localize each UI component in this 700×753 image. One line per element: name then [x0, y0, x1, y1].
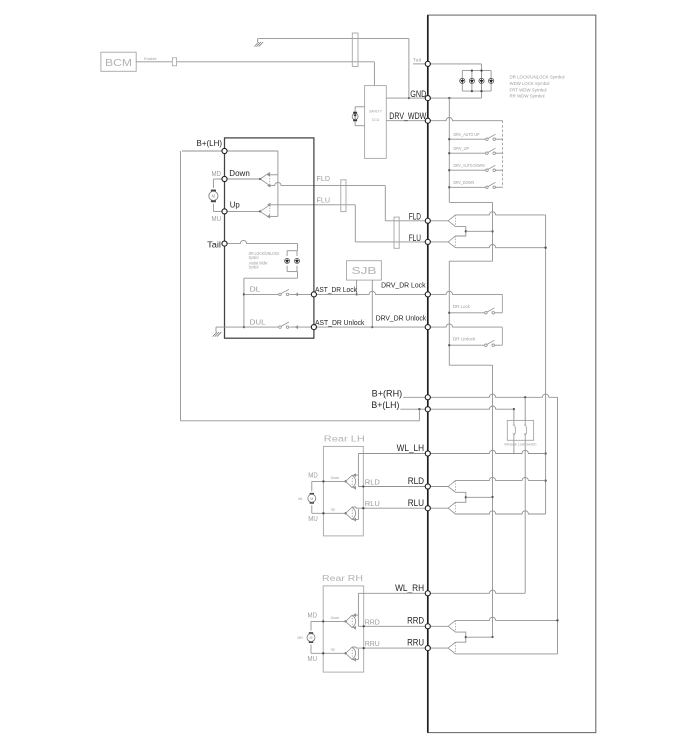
svg-text:DR LOCK/UNLOCK Symbol: DR LOCK/UNLOCK Symbol — [510, 75, 565, 80]
svg-text:RLD: RLD — [408, 476, 425, 487]
svg-text:DRV_AUTO UP: DRV_AUTO UP — [454, 132, 480, 137]
svg-text:Symbol: Symbol — [249, 264, 259, 269]
svg-text:Up: Up — [331, 647, 336, 652]
svg-text:MU: MU — [212, 216, 222, 223]
svg-text:Down: Down — [331, 475, 340, 480]
svg-text:RRD: RRD — [365, 617, 380, 626]
svg-text:WDW LOCK Symbol: WDW LOCK Symbol — [510, 81, 550, 86]
svg-text:M: M — [212, 194, 216, 199]
svg-text:CCU: CCU — [372, 117, 380, 122]
svg-text:RLD: RLD — [365, 477, 380, 486]
svg-text:WL_RH: WL_RH — [395, 583, 424, 594]
svg-text:DRV_AUTO DOWN: DRV_AUTO DOWN — [454, 163, 485, 168]
svg-text:M: M — [310, 497, 313, 501]
svg-text:Symbol: Symbol — [249, 255, 259, 260]
svg-text:B+(RH): B+(RH) — [372, 388, 403, 398]
svg-text:AST_DR Unlock: AST_DR Unlock — [315, 318, 365, 327]
svg-text:RLU: RLU — [365, 499, 380, 508]
svg-text:SAFETY: SAFETY — [369, 109, 382, 114]
svg-text:GND: GND — [410, 89, 426, 100]
svg-text:FLD: FLD — [317, 174, 331, 183]
svg-text:MD: MD — [308, 472, 318, 479]
svg-text:WL_LH: WL_LH — [397, 443, 425, 454]
svg-text:FLU: FLU — [317, 195, 331, 204]
svg-text:BCM: BCM — [105, 58, 132, 69]
svg-text:FRT WDW Symbol: FRT WDW Symbol — [510, 87, 547, 92]
svg-text:DRV_DR Lock: DRV_DR Lock — [381, 281, 426, 290]
svg-text:Down: Down — [331, 615, 340, 620]
svg-text:MU: MU — [308, 516, 318, 523]
svg-text:DRV_DR Unlock: DRV_DR Unlock — [376, 314, 427, 323]
svg-text:Enable: Enable — [144, 57, 157, 61]
svg-text:M: M — [310, 636, 313, 640]
svg-text:Down: Down — [229, 168, 250, 178]
svg-text:RRD: RRD — [407, 616, 424, 627]
svg-text:MR: MR — [298, 636, 304, 640]
svg-text:Window Lock Switch: Window Lock Switch — [504, 441, 536, 446]
svg-text:DR Unlock: DR Unlock — [453, 337, 476, 342]
svg-text:ML: ML — [298, 497, 303, 501]
svg-text:Tail: Tail — [413, 58, 421, 63]
svg-text:RR WDW Symbol: RR WDW Symbol — [510, 94, 545, 99]
svg-text:B+(LH): B+(LH) — [197, 138, 223, 148]
svg-text:MU: MU — [308, 656, 318, 663]
svg-text:Tail: Tail — [207, 239, 221, 249]
svg-text:MD: MD — [308, 612, 318, 619]
svg-text:DR Lock: DR Lock — [453, 304, 471, 309]
svg-text:DUL: DUL — [250, 318, 266, 327]
svg-text:SJB: SJB — [352, 266, 377, 277]
svg-text:Rear RH: Rear RH — [322, 574, 363, 583]
svg-text:RLU: RLU — [408, 498, 425, 509]
svg-text:AST_DR Lock: AST_DR Lock — [315, 285, 357, 294]
svg-text:DL: DL — [250, 285, 261, 294]
svg-text:Up: Up — [331, 507, 336, 512]
svg-text:DRV_WDW: DRV_WDW — [389, 111, 426, 122]
svg-text:RRU: RRU — [407, 638, 424, 649]
svg-text:DRV_UP: DRV_UP — [454, 146, 470, 151]
svg-text:MD: MD — [212, 171, 222, 178]
svg-text:Up: Up — [230, 199, 240, 209]
svg-text:Rear LH: Rear LH — [324, 434, 365, 443]
svg-text:B+(LH): B+(LH) — [371, 400, 399, 410]
svg-text:RRU: RRU — [365, 639, 380, 648]
svg-text:DRV_DOWN: DRV_DOWN — [454, 180, 475, 185]
